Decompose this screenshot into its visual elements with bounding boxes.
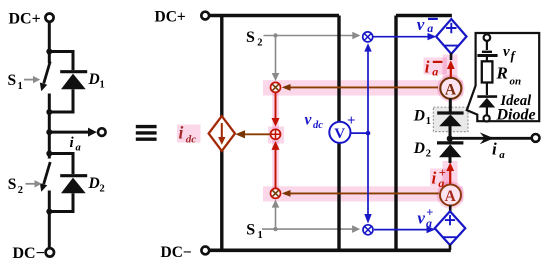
svg-text:S: S — [8, 72, 17, 89]
wire multiplier to v_a+ source — [374, 226, 435, 233]
multiplier node (S2 x v_dc) — [363, 32, 373, 42]
svg-text:a: a — [499, 149, 505, 161]
svg-text:i: i — [432, 169, 437, 188]
node callout top terminal — [484, 34, 491, 41]
diode D1 (left, antiparallel) — [49, 52, 104, 113]
junction node below D2 branch — [46, 209, 52, 215]
label D2 — [413, 140, 431, 160]
wire model top rail DC+ — [209, 14, 339, 17]
wire ammeter to v_a- (arrow up) — [447, 53, 455, 78]
svg-text:A: A — [445, 188, 457, 205]
svg-text:+: + — [347, 113, 356, 129]
diode D2 (model) — [437, 139, 463, 163]
node DC- (model terminal) — [161, 244, 210, 261]
wire ammeter to v_a+ — [449, 205, 452, 212]
dependent current source i_dc — [209, 116, 235, 151]
wire multiplier to summer (down) — [272, 93, 280, 127]
svg-text:DC−: DC− — [13, 245, 45, 262]
svg-text:i: i — [179, 122, 184, 142]
svg-text:v: v — [305, 112, 313, 129]
wire ammeter to D1 — [449, 99, 452, 114]
equivalence symbol — [136, 127, 157, 140]
highlight behind i_dc source — [177, 114, 237, 154]
junction node above S2 — [46, 151, 52, 157]
node i_a output (left circuit) — [46, 128, 105, 154]
svg-text:a: a — [432, 65, 438, 79]
svg-text:2: 2 — [18, 185, 23, 196]
svg-text:dc: dc — [313, 120, 323, 131]
label i_a- — [425, 57, 443, 78]
svg-text:DC−: DC− — [161, 244, 192, 261]
wire dc-bus left rail (i_dc branch) — [220, 16, 223, 251]
label Ideal Diode — [496, 93, 536, 124]
dashed detail box around D1 — [433, 107, 468, 131]
label R_on — [496, 64, 522, 88]
summing node — [271, 129, 281, 139]
svg-text:on: on — [510, 75, 522, 87]
node DC- (left circuit terminal) — [13, 245, 55, 262]
detail callout box (ideal diode model) — [467, 33, 539, 121]
svg-text:V: V — [334, 126, 345, 142]
wire output-side box top rail — [396, 14, 452, 17]
svg-text:a: a — [427, 21, 433, 35]
svg-text:1: 1 — [100, 80, 105, 91]
svg-text:+: + — [426, 206, 433, 220]
svg-text:D: D — [413, 108, 425, 125]
svg-text:Diode: Diode — [496, 107, 536, 124]
diode D1 (model) — [437, 113, 463, 137]
svg-text:1: 1 — [258, 230, 263, 241]
ideal diode symbol in callout — [477, 83, 497, 116]
multiplier node (S2 x i_a-) — [271, 82, 281, 92]
svg-text:2: 2 — [257, 38, 262, 49]
svg-text:D: D — [88, 175, 100, 192]
svg-text:R: R — [496, 64, 508, 83]
svg-text:S: S — [246, 29, 255, 46]
svg-text:i: i — [492, 140, 497, 159]
highlight band on bottom i_a+ wire — [263, 161, 464, 209]
switch S2 — [8, 162, 50, 196]
wire left phase-leg vertical rail — [48, 23, 51, 247]
svg-text:DC+: DC+ — [9, 10, 41, 27]
svg-text:D: D — [88, 71, 100, 88]
svg-text:D: D — [413, 140, 425, 157]
voltmeter v_dc — [305, 112, 371, 143]
node DC+ (left circuit terminal) — [9, 10, 54, 27]
switch S1 — [8, 62, 51, 93]
wire D2 to ammeter (arrow up) — [446, 162, 454, 184]
label v_a+ — [417, 206, 433, 230]
svg-text:1: 1 — [426, 116, 431, 127]
dependent voltage source v_a+ — [435, 211, 466, 250]
ammeter A (i_a-) — [440, 78, 461, 99]
svg-text:2: 2 — [426, 149, 431, 160]
wire multiplier2 to summer (up) — [272, 141, 280, 188]
wire output i_a to terminal — [450, 132, 540, 144]
label v_f — [503, 44, 517, 63]
wire v_dc sense vertical — [364, 43, 371, 224]
voltage source v_f (battery) — [477, 41, 497, 62]
svg-text:A: A — [445, 81, 457, 98]
label i_a (model output) — [492, 140, 505, 162]
ammeter A (i_a+) — [440, 185, 461, 206]
svg-text:1: 1 — [18, 81, 23, 92]
node callout bottom terminal — [484, 115, 490, 121]
node DC+ (model terminal) — [155, 9, 210, 26]
wire output-side box left rail — [394, 16, 397, 251]
svg-text:a: a — [76, 143, 81, 154]
svg-text:v: v — [503, 44, 510, 60]
label D1 — [413, 108, 431, 128]
svg-text:dc: dc — [186, 133, 197, 145]
svg-text:S: S — [246, 222, 255, 239]
label i_a+ — [432, 166, 446, 190]
wire dc-bus right rail — [337, 16, 340, 251]
svg-text:2: 2 — [100, 184, 105, 195]
label v_a- — [417, 15, 438, 35]
svg-text:+: + — [439, 166, 446, 180]
svg-text:v: v — [417, 15, 425, 34]
dependent voltage source v_a- — [436, 19, 466, 54]
wire multiplier to v_a- source — [374, 33, 437, 40]
junction node on DC+ rail above S1 — [46, 49, 52, 55]
wire i_a- sense wire (top, highlighted) — [282, 84, 438, 91]
svg-text:i: i — [425, 57, 430, 76]
wire model bottom rail DC- — [209, 249, 450, 253]
node S1 gate signal — [246, 200, 360, 242]
junction node below D1 branch — [46, 109, 52, 115]
svg-text:v: v — [417, 208, 425, 227]
multiplier node (S1 x v_dc) — [363, 225, 373, 235]
label i_dc — [179, 122, 197, 145]
wire summer to i_dc source — [235, 130, 270, 138]
diode D2 (left, antiparallel) — [49, 154, 104, 212]
wire i_a+ sense wire (bottom, highlighted) — [282, 190, 439, 197]
highlight band on top i_a- wire — [263, 55, 465, 190]
svg-text:S: S — [8, 176, 17, 193]
multiplier node (S1 x i_a+) — [271, 188, 281, 198]
node output junction — [447, 136, 453, 142]
svg-text:DC+: DC+ — [155, 9, 186, 26]
node S2 gate signal — [246, 29, 360, 81]
resistor R_on — [482, 61, 493, 82]
